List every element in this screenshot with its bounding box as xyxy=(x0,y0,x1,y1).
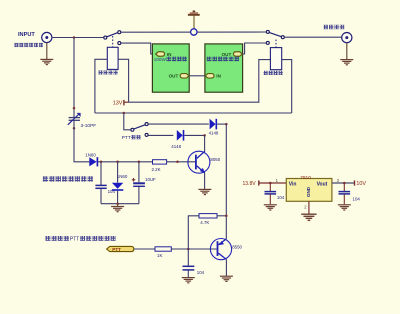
ground C4 xyxy=(182,278,195,283)
svg-text:4148: 4148 xyxy=(171,144,181,149)
capacitor C4 104 xyxy=(183,266,195,277)
label 射频收发控制转换 xyxy=(43,176,93,181)
connector J1 INPUT xyxy=(42,32,52,42)
diode D4 1N60 vertical xyxy=(112,162,123,204)
relay K1 box xyxy=(107,47,118,69)
svg-text:1K: 1K xyxy=(157,253,162,258)
svg-text:OUT: OUT xyxy=(222,52,232,57)
relay K2 box xyxy=(270,48,281,70)
capacitor C1 3-10PF variable xyxy=(68,113,81,125)
wire R1 to Q1 base xyxy=(167,161,196,163)
ground detector xyxy=(111,204,124,212)
diode D1 4148 xyxy=(177,130,184,141)
wire S2 to antenna connector xyxy=(285,36,342,38)
wire R2 to Q2 base xyxy=(171,248,217,250)
ground below J2 xyxy=(340,43,353,65)
power port 10V xyxy=(355,180,367,187)
svg-text:1N60: 1N60 xyxy=(117,174,128,179)
wire rail A 13V to output relay xyxy=(129,60,271,103)
svg-text:Vout: Vout xyxy=(317,182,328,188)
wire K1 left pin to rail B xyxy=(95,59,107,113)
wire rail B horizontal xyxy=(95,112,292,114)
junction rail B xyxy=(123,112,126,115)
svg-text:104: 104 xyxy=(277,195,285,200)
svg-text:IN: IN xyxy=(216,74,221,79)
svg-text:PTT: PTT xyxy=(70,237,79,243)
power port 13.8V xyxy=(243,180,287,187)
svg-text:PTT: PTT xyxy=(122,135,131,141)
junction bottom rail xyxy=(116,202,119,205)
svg-text:PTT: PTT xyxy=(112,247,121,252)
label 100W功放单元 xyxy=(154,57,187,62)
svg-text:13.8V: 13.8V xyxy=(243,181,257,187)
svg-text:INPUT: INPUT xyxy=(18,32,35,38)
label 收发信机PTT控制转换部分 xyxy=(46,236,116,243)
switch S3 PTT select xyxy=(131,123,148,137)
svg-text:8550: 8550 xyxy=(232,245,242,250)
junction Q2 base node xyxy=(187,248,190,251)
junction emitter rail xyxy=(225,215,228,218)
svg-text:104: 104 xyxy=(353,197,361,202)
antenna earth symbol top center xyxy=(188,11,200,36)
wire D2 to vertical rail xyxy=(217,123,226,125)
resistor R2 1K xyxy=(155,247,171,251)
diode D3 1N60 xyxy=(89,157,97,166)
wire top rail xyxy=(121,31,266,33)
power port 13V xyxy=(113,100,129,107)
wire C1 down to detector row xyxy=(74,120,90,162)
svg-text:OUT: OUT xyxy=(169,74,179,79)
resistor R3 4.7K xyxy=(199,214,217,218)
wire base node down to C4 xyxy=(187,249,189,266)
label PTT选择 xyxy=(122,135,141,141)
wire K2 right pin down to rail B xyxy=(282,60,292,113)
wire detector row xyxy=(98,161,152,163)
wire J1 to input switch xyxy=(52,37,104,39)
connector J2 antenna xyxy=(342,33,352,43)
transistor Q1 8050 xyxy=(188,151,210,173)
label 接天线端 xyxy=(324,25,345,29)
junction on input wire xyxy=(73,36,76,39)
wire collector vertical xyxy=(204,135,206,152)
svg-text:8050: 8050 xyxy=(210,157,220,162)
label 输入转换 xyxy=(99,70,118,74)
sheet block U3 low pass filter xyxy=(205,44,243,92)
sheet block U2 100W amplifier xyxy=(152,44,189,92)
wire Q2 collector to ground xyxy=(225,259,227,276)
wire S1 lower throw to block1 IN xyxy=(121,43,155,54)
svg-text:104: 104 xyxy=(197,270,205,275)
transistor Q2 8550 xyxy=(210,239,231,260)
ground below J1 xyxy=(40,43,53,65)
capacitor C5 104 xyxy=(265,183,277,204)
svg-text:1N60: 1N60 xyxy=(85,153,96,158)
capacitor C2 104 xyxy=(95,162,106,204)
label 输出转换 xyxy=(264,71,283,75)
wire Q1 emitter to ground xyxy=(204,173,206,190)
junction base wire xyxy=(176,161,179,164)
junction regulator output xyxy=(343,182,346,185)
svg-text:10V: 10V xyxy=(356,181,366,187)
switch S1 input relay contacts xyxy=(104,31,121,45)
svg-text:4148: 4148 xyxy=(209,131,219,136)
svg-text:GND: GND xyxy=(306,186,311,197)
label 低通滤波单元 xyxy=(207,57,239,62)
pin 3 wire xyxy=(332,182,355,184)
regulator U1 7810 xyxy=(286,175,332,202)
junction dot below C1 xyxy=(73,127,76,130)
svg-text:100W: 100W xyxy=(154,57,167,62)
pin 2 wire xyxy=(308,201,310,213)
junction at Q1 collector xyxy=(203,134,206,137)
svg-text:10UF: 10UF xyxy=(145,177,156,182)
ground U1 xyxy=(301,214,316,220)
svg-text:2.2K: 2.2K xyxy=(152,167,161,172)
port PTT xyxy=(107,246,134,251)
svg-text:3-10PF: 3-10PF xyxy=(81,123,97,129)
wire R3 to emitter rail xyxy=(217,215,226,217)
capacitor C6 104 xyxy=(339,183,351,204)
wire vertical to Q2 emitter xyxy=(225,124,227,239)
wire U2 OUT to U3 IN xyxy=(189,75,204,77)
wire vertical left branch xyxy=(73,38,75,118)
wire D1 to Q1 collector node xyxy=(184,134,204,136)
resistor R1 2.2K xyxy=(153,160,167,164)
svg-text:13V: 13V xyxy=(113,101,123,107)
junction C3 branch xyxy=(138,161,141,164)
svg-text:Vin: Vin xyxy=(289,182,297,188)
svg-text:7810: 7810 xyxy=(300,175,311,181)
switch S2 output relay contacts xyxy=(266,30,284,44)
ground Q1 emitter xyxy=(198,189,211,194)
junction at D2 out xyxy=(225,123,228,126)
ground C6 xyxy=(338,205,351,210)
junction D4 branch xyxy=(116,161,119,164)
ground C5 xyxy=(264,205,277,210)
ground Q2 collector xyxy=(220,276,233,281)
junction regulator input xyxy=(269,182,272,185)
wire S3 top throw to D2 xyxy=(148,123,208,125)
wire S3 bottom throw to D1 xyxy=(148,134,173,136)
dashed link S1 to relay K1 xyxy=(112,36,114,47)
capacitor C3 10UF electrolytic xyxy=(132,162,145,204)
svg-text:IN: IN xyxy=(167,52,172,57)
wire base node up to R3 xyxy=(188,216,199,249)
wire K1 right pin to 13V rail xyxy=(118,59,129,102)
wire U3 OUT to output switch xyxy=(243,43,267,54)
wire bottom rail of detector xyxy=(101,203,139,205)
svg-text:4.7K: 4.7K xyxy=(200,220,209,225)
diode D2 4148 xyxy=(210,119,217,130)
junction dot xyxy=(73,107,76,110)
wire PTT port to R2 xyxy=(134,248,155,250)
dashed link S2 to relay K2 xyxy=(275,40,277,48)
wire rail B to PTT switch common xyxy=(124,113,131,130)
junction C2 branch xyxy=(100,161,103,164)
label 收发信机输出 xyxy=(15,43,44,47)
